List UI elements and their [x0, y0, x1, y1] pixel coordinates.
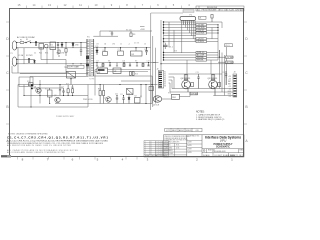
svg-text:100-0046-001: 100-0046-001: [212, 151, 226, 153]
resistor R3 on top bus: [130, 31, 132, 37]
net label text: [197, 25, 205, 62]
svg-text:3. HEATSINK REQ'D Q4 AND Q5: 3. HEATSINK REQ'D Q4 AND Q5: [196, 118, 224, 121]
svg-text:ASSY: ASSY: [179, 129, 185, 132]
svg-text:D: D: [203, 149, 205, 153]
svg-text:B7: B7: [164, 84, 166, 86]
svg-text:100-0214: 100-0214: [157, 147, 164, 149]
svg-text:RN1: RN1: [172, 97, 176, 99]
AC terminal labels: [11, 53, 34, 57]
regulator Q5 (TO-3 can): [209, 80, 218, 95]
zone tick marks bottom: [18, 157, 138, 160]
scattered reference designator labels: [27, 29, 225, 118]
svg-text:C17: C17: [96, 61, 99, 63]
svg-text:100-0216: 100-0216: [157, 151, 164, 153]
svg-text:R10: R10: [27, 81, 30, 83]
svg-text:C1,C4,C7,CR2,CR4,Q1,Q3,R2,R7,R: C1,C4,C7,CR2,CR4,Q1,Q3,R2,R7,R11,T1,U2,V…: [7, 135, 108, 139]
cap C10: [62, 88, 64, 96]
zener CR7: [128, 96, 130, 104]
svg-text:B5: B5: [164, 80, 166, 82]
svg-text:F1: F1: [20, 40, 22, 42]
driver transistor ballast R24: [184, 75, 188, 80]
parts list table: [144, 141, 169, 157]
verticals right of bottom row: [95, 70, 146, 104]
svg-text:C9 .1: C9 .1: [225, 45, 229, 47]
cap C14 beside Q5: [225, 71, 227, 78]
svg-text:ENGINEER: ENGINEER: [164, 150, 173, 152]
svg-text:OVP ADJ: OVP ADJ: [191, 92, 198, 95]
crowbar SCR Q6 (oval): [153, 96, 161, 102]
net label boxes mid right: [226, 56, 235, 64]
parts table faint row entries: [145, 141, 163, 155]
svg-text:REVISIONS: REVISIONS: [207, 7, 218, 9]
IC U1: [131, 48, 143, 56]
svg-text:Q6 SCR: Q6 SCR: [153, 105, 160, 107]
thermistor RT1: [45, 44, 49, 48]
svg-text:C11: C11: [115, 94, 118, 96]
svg-text:D.W.: D.W.: [176, 147, 180, 149]
connector J3 (right vertical bar): [233, 72, 237, 98]
svg-text:RET SEN: RET SEN: [226, 62, 234, 64]
svg-text:P1: P1: [190, 14, 192, 16]
resistor R10: [29, 83, 34, 86]
svg-text:U2 723: U2 723: [97, 66, 103, 68]
resistor R12: [48, 88, 53, 104]
cap C3 lower branch: [28, 58, 29, 63]
svg-text:+12V RT: +12V RT: [197, 30, 205, 32]
svg-text:ECO 114: ECO 114: [219, 10, 227, 12]
junction dots bridge: [65, 42, 81, 43]
junction dots on lower AC wire: [72, 63, 81, 64]
net label box soft start: [64, 65, 84, 69]
pullup resistor stub top right: [211, 15, 213, 23]
top bus wire: [93, 31, 152, 36]
secondary rail wire: [88, 48, 156, 76]
inrush limiter box: [19, 77, 33, 107]
svg-text:C5: C5: [118, 49, 120, 51]
small label box right top: [225, 44, 233, 47]
svg-text:B2: B2: [164, 74, 166, 76]
extra collector vertical: [226, 47, 228, 85]
svg-text:U3: U3: [114, 71, 116, 73]
svg-text:-12V RT: -12V RT: [197, 39, 205, 41]
switch S1: [26, 41, 32, 43]
svg-text:B8: B8: [164, 86, 166, 88]
junction dots left bottom circuit: [23, 84, 73, 108]
AC section vertical drops: [18, 48, 66, 73]
cap C12 polarized: [122, 96, 124, 104]
svg-text:S1: S1: [26, 39, 28, 41]
svg-text:C2: C2: [109, 31, 111, 33]
right side vertical bus: [161, 20, 164, 71]
company name: [205, 136, 241, 149]
svg-text:J2: J2: [157, 68, 159, 70]
bottom-left circuit long wire: [18, 80, 158, 107]
svg-text:R17: R17: [163, 42, 166, 44]
plug P1 lower: [12, 57, 17, 66]
svg-text:SCHEMATIC: SCHEMATIC: [216, 146, 230, 149]
row end junction dots right: [217, 24, 220, 58]
svg-text:+12: +12: [228, 86, 231, 88]
transistor Q1: [36, 88, 41, 93]
centre vertical bus lines: [151, 13, 156, 110]
svg-text:R3 10K: R3 10K: [126, 29, 133, 31]
svg-text:K2: K2: [140, 96, 142, 98]
emitter resistor R22: [191, 82, 194, 86]
relay K3 contact box: [127, 89, 134, 95]
svg-text:RET: RET: [228, 81, 231, 83]
title block left cells: [164, 143, 187, 157]
svg-text:RET: RET: [228, 83, 231, 85]
corner fold mark bottom left: [1, 155, 11, 158]
enclosure wire lower AC: [20, 74, 88, 85]
svg-text:J3: J3: [234, 72, 236, 74]
svg-text:B6: B6: [164, 82, 166, 84]
svg-text:K2: K2: [135, 96, 137, 98]
capacitor C5: [118, 48, 124, 56]
svg-text:B4: B4: [164, 78, 166, 80]
svg-text:C10: C10: [61, 86, 64, 88]
svg-text:R16: R16: [135, 74, 138, 76]
svg-text:C14: C14: [222, 72, 225, 74]
cap C13 beside Q4: [197, 74, 199, 89]
svg-text:RN1: RN1: [168, 93, 171, 95]
svg-text:Q3: Q3: [104, 98, 106, 100]
relay K1: [50, 42, 56, 50]
svg-text:R8: R8: [108, 61, 110, 63]
edge connector J2 (vertical bar): [157, 68, 164, 88]
svg-text:R9: R9: [135, 61, 137, 63]
resistor network RN1: [172, 94, 180, 99]
wires to mid right labels: [218, 50, 226, 62]
plug terminal dots: [16, 42, 17, 64]
connector J1 body (top right): [180, 17, 196, 21]
svg-text:C6: C6: [144, 44, 146, 46]
svg-text:+5: +5: [128, 44, 130, 46]
transistor Q2: [55, 97, 60, 102]
svg-text:100-0212: 100-0212: [157, 143, 164, 145]
border frame: [10, 9, 244, 157]
capacitor C6: [145, 48, 148, 55]
svg-text:+5V BUS: +5V BUS: [197, 27, 205, 29]
series pass component on bus: [149, 87, 154, 91]
wires lower right: [162, 78, 234, 99]
svg-text:C6: C6: [144, 49, 146, 51]
svg-text:P1: P1: [11, 53, 13, 55]
line filter FL1: [39, 44, 44, 50]
svg-text:ALL RESISTORS ARE IN OHMS 1/4W: ALL RESISTORS ARE IN OHMS 1/4W 5% UNLESS…: [7, 144, 72, 147]
svg-text:Q2: Q2: [54, 95, 56, 97]
svg-text:100-0215: 100-0215: [157, 149, 164, 151]
svg-text:S1 PWR: S1 PWR: [26, 55, 33, 57]
title block lower right rows: [202, 149, 244, 157]
svg-text:NOTES:: NOTES:: [196, 112, 205, 114]
svg-text:R20: R20: [98, 89, 101, 91]
relay K2: [135, 98, 141, 104]
svg-text:R4: R4: [103, 50, 105, 52]
svg-text:R14: R14: [66, 83, 69, 85]
svg-text:QTY: QTY: [166, 130, 171, 132]
svg-text:SHEET 1 OF 1: SHEET 1 OF 1: [230, 155, 244, 157]
zone letters right: [245, 37, 248, 143]
J2 pin net labels: [164, 72, 166, 88]
cap C1 line filter: [35, 41, 36, 46]
svg-text:-12: -12: [229, 88, 231, 90]
resistor R14: [67, 85, 69, 96]
winding tap labels: [96, 43, 146, 46]
polarity marks: [31, 84, 33, 89]
resistor R5 hanging: [58, 50, 60, 57]
svg-text:C12: C12: [120, 94, 123, 96]
diode CR1: [61, 43, 63, 48]
zone digits bottom: [22, 158, 234, 162]
wires from J2 to regulators: [153, 60, 222, 92]
transformer T1: [86, 37, 94, 77]
svg-text:100-0213: 100-0213: [157, 145, 164, 147]
zone digits top: [18, 3, 191, 7]
rectifier diode CR5: [96, 48, 98, 55]
tolerance note tiny text: [164, 136, 190, 155]
svg-text:100-0217: 100-0217: [157, 153, 164, 155]
svg-text:100-0211: 100-0211: [157, 141, 163, 143]
svg-text:USED: USED: [186, 130, 192, 132]
wire row to border: [161, 63, 244, 65]
diode CR2 lower branch: [28, 60, 36, 64]
svg-text:FL1: FL1: [39, 53, 42, 55]
fuse F1: [20, 41, 24, 43]
svg-text:C13: C13: [196, 72, 199, 74]
resistor R15: [72, 85, 74, 96]
svg-text:R15: R15: [71, 87, 74, 89]
svg-text:CR7: CR7: [127, 94, 130, 96]
regulator Q4 (TO-3 can): [182, 80, 191, 92]
zone tick marks top: [27, 6, 182, 9]
svg-text:PROD RELEASE: PROD RELEASE: [202, 9, 217, 12]
cap C2 hanging on top bus: [111, 31, 113, 36]
bridge rectifier diode CR3: [72, 43, 74, 49]
cap C16: [80, 43, 82, 57]
svg-text:CR3: CR3: [75, 45, 78, 47]
notes block (general notes, lower-left): [7, 133, 108, 154]
IC U2 regulator control: [95, 68, 151, 74]
svg-text:C18: C18: [122, 61, 125, 63]
svg-text:RT1: RT1: [45, 53, 48, 55]
svg-text:REV: REV: [240, 149, 245, 151]
J1 pin stubs: [182, 20, 195, 24]
IC U3: [113, 68, 121, 74]
svg-text:+5V SEN: +5V SEN: [226, 57, 234, 59]
right collector verticals: [218, 22, 225, 85]
svg-text:DESC: DESC: [163, 156, 169, 158]
svg-text:CR5: CR5: [95, 46, 98, 48]
svg-text:CR4: CR4: [112, 44, 115, 46]
components hanging under mid rail: [96, 63, 150, 67]
svg-text:SENSE-: SENSE-: [197, 60, 204, 62]
svg-text:B1: B1: [164, 72, 166, 74]
svg-text:R12: R12: [45, 89, 48, 91]
resistor pair R20 R21: [99, 85, 105, 104]
zone letters left: [6, 37, 9, 143]
junction dots AC: [35, 42, 62, 48]
svg-text:8-4-81: 8-4-81: [229, 10, 234, 12]
cap C8 left of rows: [163, 43, 168, 49]
driver transistor ballast R25: [211, 75, 215, 80]
label flag above bus: [140, 27, 145, 31]
cap C20 mid branch: [59, 85, 61, 96]
svg-text:R18: R18: [174, 51, 177, 53]
svg-text:K1: K1: [51, 45, 53, 47]
title block application strip: [165, 128, 202, 131]
svg-text:ITEM: ITEM: [145, 156, 150, 158]
component labels AC row: [34, 53, 64, 55]
junction dots on rail: [96, 47, 147, 48]
svg-text:DW: DW: [241, 10, 244, 12]
net label box near RN1: [190, 92, 198, 95]
wire from plug: [12, 43, 87, 74]
net label boxes on rows: [196, 24, 207, 61]
svg-text:POWER SUPPLY ASSY: POWER SUPPLY ASSY: [56, 115, 75, 118]
svg-text:C8 .1: C8 .1: [169, 47, 173, 49]
wire rows upper group: [164, 22, 223, 42]
svg-text:Q1: Q1: [34, 87, 36, 89]
svg-text:U2: U2: [98, 72, 100, 74]
svg-text:SOFT START: SOFT START: [68, 66, 80, 69]
svg-text:U1 723: U1 723: [134, 43, 139, 45]
junction dots bottom row: [100, 84, 153, 104]
svg-text:CR1: CR1: [61, 53, 64, 55]
title block middle cells: [187, 141, 202, 152]
svg-text:C5: C5: [120, 44, 122, 46]
resistor pair R16 R19: [130, 72, 135, 76]
transistor Q3: [106, 97, 111, 102]
resistor R4: [103, 48, 108, 56]
labels bottom row: [98, 89, 137, 98]
svg-text:B3: B3: [164, 76, 166, 78]
svg-text:+12 BUS: +12 BUS: [197, 33, 205, 35]
svg-text:ALL DIODES ARE 1N4002 UNLESS O: ALL DIODES ARE 1N4002 UNLESS OTHERWISE N…: [7, 151, 66, 154]
notes list (right centre): [196, 112, 224, 122]
zone letter ticks left: [6, 22, 9, 124]
svg-text:JW: JW: [237, 10, 240, 12]
title block main outline: [164, 135, 245, 157]
zone letter ticks right: [244, 22, 247, 124]
wire feedback: [121, 80, 151, 82]
svg-text:C1: C1: [34, 53, 36, 55]
J3 pin labels: [227, 76, 231, 98]
J1 reference label box: [151, 10, 206, 20]
bridge rectifier BR1: [67, 72, 76, 85]
svg-text:T1 PRI: T1 PRI: [89, 79, 95, 81]
wire rows lower group: [164, 53, 219, 61]
svg-text:TP1: TP1: [64, 67, 67, 69]
emitter resistor R23: [218, 82, 221, 86]
J1 pin drop wires: [169, 22, 212, 53]
svg-text:SCALE: SCALE: [203, 154, 210, 157]
cap C11: [116, 96, 118, 104]
svg-text:R.M.: R.M.: [176, 144, 180, 146]
svg-text:-12 BUS: -12 BUS: [197, 41, 205, 43]
plug P1 upper: [12, 41, 17, 50]
MOV RV1: [57, 43, 59, 48]
revision table top right: [196, 6, 244, 11]
junction dots on left bus: [163, 21, 164, 60]
svg-text:+24V: +24V: [140, 29, 145, 31]
svg-text:+5V RET: +5V RET: [197, 25, 205, 27]
svg-text:R3: R3: [133, 34, 135, 36]
cap C4: [65, 43, 67, 57]
svg-text:C19: C19: [147, 61, 150, 63]
svg-text:NEXT: NEXT: [172, 130, 178, 132]
